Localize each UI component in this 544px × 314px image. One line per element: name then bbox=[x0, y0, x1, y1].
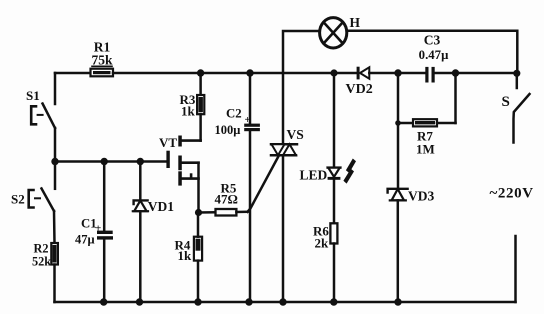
svg-text:+: + bbox=[245, 114, 251, 126]
svg-text:VD3: VD3 bbox=[408, 189, 434, 204]
svg-text:+: + bbox=[95, 223, 101, 235]
wire top rail left segment bbox=[55, 72, 91, 75]
svg-text:VD2: VD2 bbox=[346, 82, 373, 97]
capacitor C1 bbox=[75, 162, 113, 303]
transistor VT (MOSFET) bbox=[159, 135, 201, 213]
wire triac gate slant bbox=[248, 156, 279, 212]
svg-text:C2: C2 bbox=[226, 107, 242, 121]
resistor R5 bbox=[199, 181, 248, 216]
svg-text:R2: R2 bbox=[34, 242, 49, 256]
diode VD2 bbox=[346, 67, 373, 97]
svg-text:H: H bbox=[350, 15, 361, 30]
wire lamp to right corner bbox=[347, 31, 517, 73]
resistor R3 bbox=[180, 73, 205, 141]
LED bbox=[300, 73, 357, 223]
lamp H bbox=[320, 15, 361, 48]
svg-text:S: S bbox=[502, 94, 510, 110]
resistor R6 bbox=[313, 223, 337, 302]
switch S2 bbox=[11, 162, 55, 244]
svg-text:52k: 52k bbox=[32, 255, 51, 269]
wire top rail middle segment bbox=[113, 72, 357, 75]
wire lamp branch top bbox=[283, 31, 319, 144]
svg-text:C3: C3 bbox=[424, 33, 441, 48]
svg-text:1k: 1k bbox=[181, 104, 196, 119]
capacitor C2 bbox=[215, 73, 260, 302]
svg-text:75k: 75k bbox=[91, 53, 113, 68]
resistor R1 bbox=[91, 40, 114, 77]
svg-text:100μ: 100μ bbox=[215, 123, 241, 137]
triac VS bbox=[271, 127, 304, 302]
switch S bbox=[502, 73, 530, 143]
wire VD3 branch bbox=[397, 73, 400, 189]
label ~220V bbox=[490, 186, 534, 202]
wire top rail segment VD2 to C3 bbox=[369, 72, 425, 75]
svg-text:S1: S1 bbox=[26, 88, 40, 103]
capacitor C3 bbox=[419, 33, 449, 83]
svg-text:VD1: VD1 bbox=[148, 199, 174, 214]
svg-text:LED: LED bbox=[300, 168, 328, 183]
wire bottom rail bbox=[55, 301, 516, 304]
svg-text:1M: 1M bbox=[416, 142, 435, 157]
svg-text:47Ω: 47Ω bbox=[215, 192, 238, 207]
svg-text:47μ: 47μ bbox=[75, 233, 95, 247]
svg-text:VT: VT bbox=[159, 135, 177, 150]
resistor R7 bbox=[398, 73, 456, 157]
svg-text:S2: S2 bbox=[11, 192, 25, 207]
svg-text:2k: 2k bbox=[315, 236, 330, 251]
svg-text:1k: 1k bbox=[178, 248, 193, 263]
wire AC bottom stub bbox=[514, 236, 517, 302]
svg-text:0.47μ: 0.47μ bbox=[419, 48, 449, 62]
resistor R2 bbox=[32, 242, 58, 303]
switch S1 bbox=[26, 73, 55, 162]
svg-text:~220V: ~220V bbox=[490, 186, 534, 202]
resistor R4 bbox=[175, 213, 203, 303]
wire mid rail bbox=[55, 160, 167, 163]
svg-text:VS: VS bbox=[287, 127, 304, 142]
wire top rail right segment bbox=[435, 72, 517, 75]
diode VD1 (zener) bbox=[133, 162, 174, 303]
diode VD3 (zener) bbox=[388, 189, 435, 303]
